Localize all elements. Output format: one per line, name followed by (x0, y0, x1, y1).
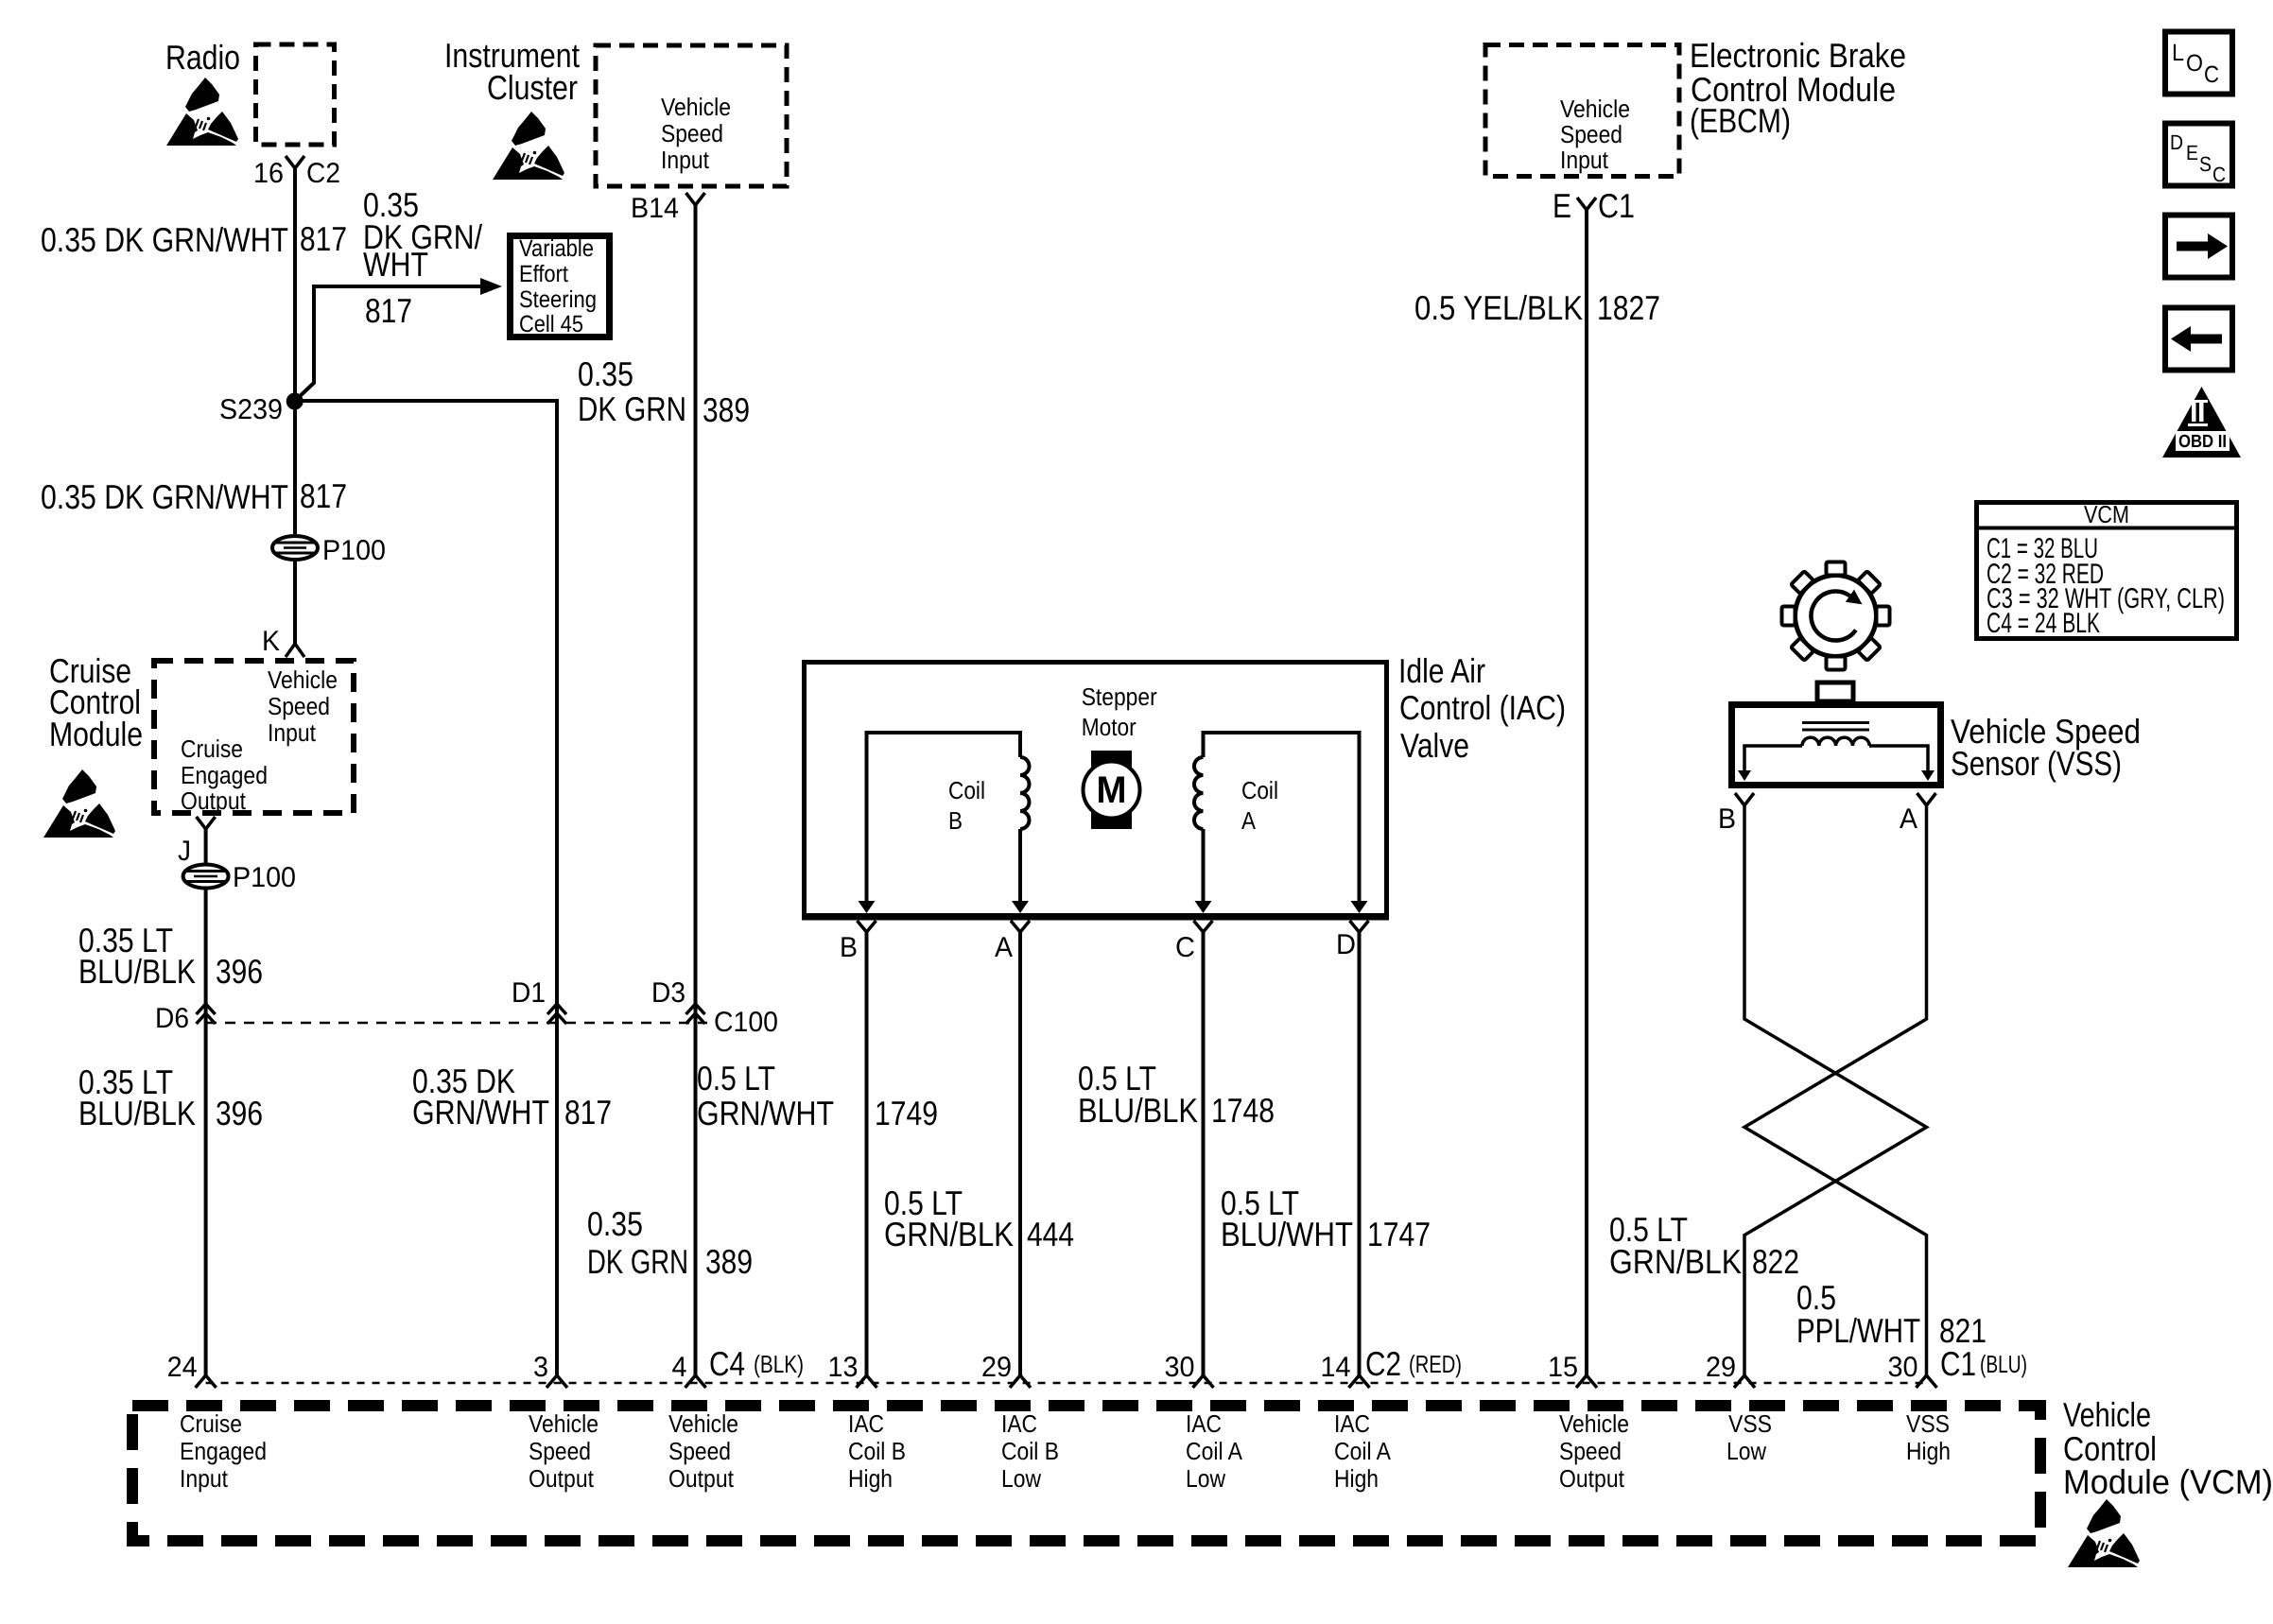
svg-text:A: A (1241, 806, 1257, 835)
svg-text:Control (IAC): Control (IAC) (1399, 688, 1566, 727)
svg-text:P100: P100 (322, 535, 386, 566)
svg-text:C1: C1 (1940, 1344, 1976, 1383)
svg-text:PPL/WHT: PPL/WHT (1796, 1311, 1920, 1350)
svg-text:Coil B: Coil B (1001, 1437, 1059, 1465)
legend icon: LOC box (2165, 32, 2232, 95)
svg-text:Input: Input (661, 146, 710, 174)
svg-text:Low: Low (1186, 1464, 1225, 1493)
svg-text:D1: D1 (512, 977, 546, 1009)
VCM pin 29 fork (1734, 1375, 1755, 1388)
svg-text:VSS: VSS (1728, 1409, 1772, 1438)
svg-text:BLU/BLK: BLU/BLK (78, 1094, 196, 1132)
svg-text:Module: Module (49, 715, 143, 753)
svg-text:Idle Air: Idle Air (1398, 651, 1485, 690)
svg-text:396: 396 (216, 1094, 263, 1132)
splice S239 (286, 393, 304, 410)
svg-text:Vehicle: Vehicle (529, 1409, 599, 1438)
coil A winding (4 bumps) (1194, 757, 1204, 829)
ESD sensitive symbol (VCM) (2068, 1499, 2140, 1567)
svg-text:822: 822 (1752, 1242, 1799, 1281)
svg-text:GRN/WHT: GRN/WHT (697, 1094, 834, 1132)
pin E / C1 connector fork at EBCM (1577, 198, 1596, 210)
VCM pin 30 fork (1917, 1375, 1937, 1388)
VSS pin B fork (1735, 793, 1754, 805)
VCM connector thin dashed line (206, 1382, 1927, 1385)
svg-text:(EBCM): (EBCM) (1690, 101, 1791, 140)
VCM pin 14 fork (1349, 1375, 1370, 1388)
svg-text:Vehicle: Vehicle (661, 93, 731, 121)
svg-text:IAC: IAC (1334, 1409, 1370, 1438)
svg-text:High: High (1906, 1437, 1951, 1465)
svg-text:444: 444 (1027, 1215, 1074, 1253)
wire 396: pin J down to VCM pin 24 (204, 829, 208, 1375)
svg-text:A: A (1900, 803, 1917, 835)
svg-text:B: B (948, 806, 963, 835)
wire 1748: IAC pin C to VCM pin 30 (1202, 932, 1206, 1375)
svg-text:D3: D3 (651, 977, 685, 1009)
svg-text:IAC: IAC (1186, 1409, 1222, 1438)
svg-text:K: K (262, 626, 280, 657)
svg-text:S: S (2199, 152, 2212, 176)
svg-text:B: B (840, 932, 858, 963)
pin 16 / C2 connector fork at Radio (286, 156, 304, 168)
svg-text:C4: C4 (709, 1344, 745, 1383)
VSS mounting tab (1817, 682, 1853, 701)
svg-text:Speed: Speed (268, 692, 330, 720)
ESD sensitive symbol (Radio) (166, 78, 238, 146)
svg-text:Stepper: Stepper (1082, 682, 1157, 711)
wire branch 817 to Variable Effort Steering with arrow (295, 286, 490, 401)
svg-text:DK GRN: DK GRN (587, 1242, 688, 1281)
VCM pin 30 fork (1193, 1375, 1214, 1388)
svg-text:Cruise: Cruise (181, 734, 243, 763)
svg-text:30: 30 (1888, 1352, 1918, 1383)
svg-text:Coil: Coil (948, 776, 985, 804)
svg-text:Module (VCM): Module (VCM) (2063, 1462, 2273, 1501)
VCM table header separator (1974, 527, 2237, 530)
IAC pin A fork (1011, 921, 1030, 932)
svg-text:Input: Input (1560, 146, 1609, 174)
svg-text:Input: Input (268, 718, 317, 747)
svg-text:Output: Output (1559, 1464, 1625, 1493)
svg-text:389: 389 (703, 390, 750, 429)
svg-text:C2: C2 (306, 158, 340, 189)
svg-text:Vehicle: Vehicle (668, 1409, 738, 1438)
svg-text:(BLU): (BLU) (1980, 1350, 2027, 1378)
svg-text:389: 389 (705, 1242, 753, 1281)
coil B winding (4 bumps) (1020, 757, 1030, 829)
svg-text:Effort: Effort (519, 261, 568, 287)
svg-text:E: E (2186, 141, 2198, 164)
VSS pole piece core lines (1802, 721, 1869, 724)
VCM connector table box (1977, 503, 2237, 639)
svg-text:24: 24 (167, 1352, 198, 1383)
svg-text:Output: Output (668, 1464, 735, 1493)
stepper motor symbol M (1091, 751, 1132, 829)
inline connector P100 (cruise engaged wire) (183, 865, 229, 889)
svg-text:WHT: WHT (363, 245, 428, 284)
svg-text:Vehicle: Vehicle (1559, 1409, 1629, 1438)
VCM pin 24 fork (196, 1375, 217, 1388)
svg-text:13: 13 (828, 1352, 859, 1383)
svg-text:P100: P100 (233, 862, 296, 893)
svg-text:0.35 DK GRN/WHT: 0.35 DK GRN/WHT (41, 220, 288, 259)
pin K connector fork at Cruise Control Module (286, 644, 304, 657)
svg-text:0.5 YEL/BLK: 0.5 YEL/BLK (1414, 288, 1583, 327)
legend icon: right arrow box (2165, 216, 2232, 278)
svg-text:396: 396 (216, 952, 263, 991)
module box: Radio (dashed outline) (256, 44, 335, 145)
svg-text:1747: 1747 (1367, 1215, 1431, 1253)
svg-text:C100: C100 (714, 1007, 778, 1038)
svg-text:817: 817 (365, 291, 412, 330)
IAC box bottom edge (thick) (802, 914, 1389, 921)
VCM pin 13 fork (857, 1375, 877, 1388)
svg-text:817: 817 (564, 1093, 612, 1132)
svg-text:(RED): (RED) (1409, 1350, 1462, 1378)
svg-text:Vehicle: Vehicle (268, 665, 338, 694)
svg-text:GRN/BLK: GRN/BLK (1609, 1242, 1742, 1281)
svg-text:BLU/BLK: BLU/BLK (1078, 1091, 1198, 1130)
svg-text:Steering: Steering (519, 286, 597, 313)
component box: Vehicle Speed Sensor (VSS) (1732, 705, 1941, 786)
svg-text:BLU/WHT: BLU/WHT (1221, 1215, 1353, 1253)
VSS internal arrowheads (1738, 770, 1751, 781)
svg-text:1827: 1827 (1597, 288, 1660, 327)
svg-text:Coil B: Coil B (848, 1437, 906, 1465)
svg-text:Engaged: Engaged (180, 1437, 267, 1465)
svg-text:C: C (2204, 61, 2219, 88)
connector pin D3 double chevron (686, 1004, 705, 1014)
component box: Idle Air Control (IAC) Valve (805, 663, 1387, 916)
svg-text:15: 15 (1548, 1352, 1578, 1383)
svg-text:Cruise: Cruise (180, 1409, 242, 1438)
svg-text:29: 29 (1706, 1352, 1736, 1383)
svg-text:D: D (1336, 929, 1356, 960)
legend icon: DESC box (2165, 124, 2232, 186)
ESD sensitive symbol (Instrument Cluster) (493, 112, 564, 180)
svg-text:OBD II: OBD II (2178, 432, 2227, 452)
svg-text:0.35: 0.35 (587, 1204, 643, 1243)
svg-text:Coil: Coil (1241, 776, 1278, 804)
svg-text:Radio: Radio (165, 38, 240, 77)
svg-text:(BLK): (BLK) (754, 1350, 804, 1378)
VCM pin 15 fork (1576, 1375, 1597, 1388)
legend icon: OBD II triangle (2162, 387, 2241, 458)
svg-text:Valve: Valve (1400, 726, 1469, 765)
svg-text:3: 3 (533, 1352, 548, 1383)
VSS internal wiring to pins (1744, 746, 1802, 771)
svg-text:Coil A: Coil A (1334, 1437, 1392, 1465)
svg-text:C1: C1 (1598, 186, 1635, 225)
svg-text:D6: D6 (155, 1003, 189, 1034)
svg-text:IAC: IAC (1001, 1409, 1037, 1438)
svg-text:B: B (1718, 803, 1736, 835)
svg-text:Coil A: Coil A (1186, 1437, 1243, 1465)
VCM pin 3 fork (547, 1375, 567, 1388)
wire 444: IAC pin A to VCM pin 29 (1018, 932, 1022, 1375)
svg-text:VCM: VCM (2084, 500, 2129, 528)
svg-text:B14: B14 (631, 193, 679, 224)
svg-text:1748: 1748 (1211, 1091, 1275, 1130)
svg-text:GRN/WHT: GRN/WHT (412, 1093, 549, 1132)
module box: Vehicle Control Module VCM (thick dashed outline) (132, 1406, 2040, 1541)
wire 389: Instrument Cluster pin B14 down to VCM pin 4 (694, 205, 698, 1375)
svg-text:D: D (2170, 130, 2183, 154)
module box: Electronic Brake Control Module (dashed outline) (1485, 45, 1679, 177)
svg-text:S239: S239 (219, 394, 283, 425)
svg-text:Engaged: Engaged (181, 761, 268, 789)
svg-text:GRN/BLK: GRN/BLK (884, 1215, 1014, 1253)
svg-text:C: C (2212, 163, 2226, 186)
svg-text:VSS: VSS (1906, 1409, 1950, 1438)
wire 1827: EBCM pin E down to VCM pin 15 (1585, 210, 1588, 1375)
svg-text:M: M (1097, 769, 1127, 811)
svg-text:IAC: IAC (848, 1409, 884, 1438)
arrowhead into Variable Effort Steering box (480, 278, 502, 295)
wire 1749: IAC pin B to VCM pin 13 (865, 932, 869, 1375)
inline connector P100 (radio-cruise wire) (272, 536, 318, 560)
IAC pin C fork (1194, 921, 1213, 932)
IAC coil A loop wiring (1204, 733, 1360, 909)
svg-text:Low: Low (1726, 1437, 1766, 1465)
svg-text:Output: Output (529, 1464, 595, 1493)
svg-text:0.5 LT: 0.5 LT (697, 1059, 775, 1097)
wire 1747: IAC pin D to VCM pin 14 (1358, 932, 1362, 1375)
IAC internal arrowheads at box bottom (859, 901, 876, 913)
svg-text:Cluster: Cluster (487, 68, 578, 107)
module box: Instrument Cluster (dashed outline) (596, 45, 787, 186)
svg-text:Electronic Brake: Electronic Brake (1690, 36, 1906, 75)
box: Variable Effort Steering Cell 45 (511, 236, 610, 337)
svg-text:14: 14 (1321, 1352, 1351, 1383)
ESD sensitive symbol (Cruise Control Module) (43, 769, 115, 838)
svg-text:Vehicle: Vehicle (2063, 1395, 2151, 1434)
IAC coil B loop wiring (867, 733, 1021, 909)
svg-text:4: 4 (672, 1352, 687, 1383)
svg-text:Vehicle: Vehicle (1560, 95, 1630, 123)
legend icon: left arrow box (2165, 308, 2232, 371)
svg-text:Speed: Speed (668, 1437, 731, 1465)
svg-text:C4 = 24 BLK: C4 = 24 BLK (1987, 608, 2100, 639)
svg-text:L: L (2172, 40, 2184, 66)
wire: S239 down to Cruise Control Module pin K (293, 401, 297, 644)
pin J connector fork at Cruise Control Module (197, 817, 216, 829)
svg-text:DK GRN: DK GRN (578, 389, 686, 428)
wire 817: Radio pin 16 down to splice S239 (293, 168, 297, 401)
pin B14 connector fork at Instrument Cluster (686, 193, 705, 205)
svg-text:E: E (1553, 186, 1571, 225)
svg-text:Variable: Variable (519, 235, 594, 262)
reluctor gear symbol above VSS (1782, 562, 1890, 670)
svg-text:Sensor (VSS): Sensor (VSS) (1951, 744, 2122, 783)
svg-text:0.35: 0.35 (578, 354, 633, 393)
connector pin D6 double chevron (197, 1004, 216, 1014)
svg-text:O: O (2186, 50, 2203, 77)
svg-text:817: 817 (300, 476, 347, 515)
svg-text:Motor: Motor (1082, 713, 1136, 741)
VSS pin A fork (1917, 793, 1936, 805)
connector pin D1 double chevron (547, 1004, 566, 1014)
VCM pin 4 fork (685, 1375, 706, 1388)
svg-text:A: A (995, 932, 1013, 963)
svg-text:Speed: Speed (1560, 120, 1622, 148)
svg-text:High: High (848, 1464, 893, 1493)
svg-text:Speed: Speed (1559, 1437, 1622, 1465)
svg-text:817: 817 (300, 219, 347, 258)
svg-text:BLU/BLK: BLU/BLK (78, 952, 196, 991)
svg-text:J: J (178, 836, 191, 867)
svg-text:C2: C2 (1365, 1344, 1401, 1383)
svg-text:0.35 DK GRN/WHT: 0.35 DK GRN/WHT (41, 477, 288, 516)
VSS pickup coil winding (1802, 737, 1869, 746)
svg-text:29: 29 (981, 1352, 1012, 1383)
svg-text:Cell 45: Cell 45 (519, 311, 583, 337)
VSS twisted-pair wires with crossovers (1744, 805, 1927, 1375)
IAC pin B fork (858, 921, 876, 932)
inline connector C100 dashed line (206, 1022, 707, 1025)
IAC pin D fork (1350, 921, 1369, 932)
wire 817: S239 branch right and down to VCM pin 3 (295, 401, 557, 1375)
VCM pin 29 fork (1010, 1375, 1031, 1388)
svg-text:Low: Low (1001, 1464, 1041, 1493)
svg-text:High: High (1334, 1464, 1379, 1493)
svg-text:1749: 1749 (875, 1094, 938, 1132)
svg-text:30: 30 (1165, 1352, 1195, 1383)
svg-text:Speed: Speed (661, 119, 723, 147)
module box: Cruise Control Module (dashed outline) (154, 661, 354, 813)
svg-text:16: 16 (253, 158, 284, 189)
svg-text:Speed: Speed (529, 1437, 591, 1465)
svg-text:C: C (1175, 932, 1195, 963)
svg-text:Input: Input (180, 1464, 229, 1493)
svg-text:Output: Output (181, 786, 247, 815)
